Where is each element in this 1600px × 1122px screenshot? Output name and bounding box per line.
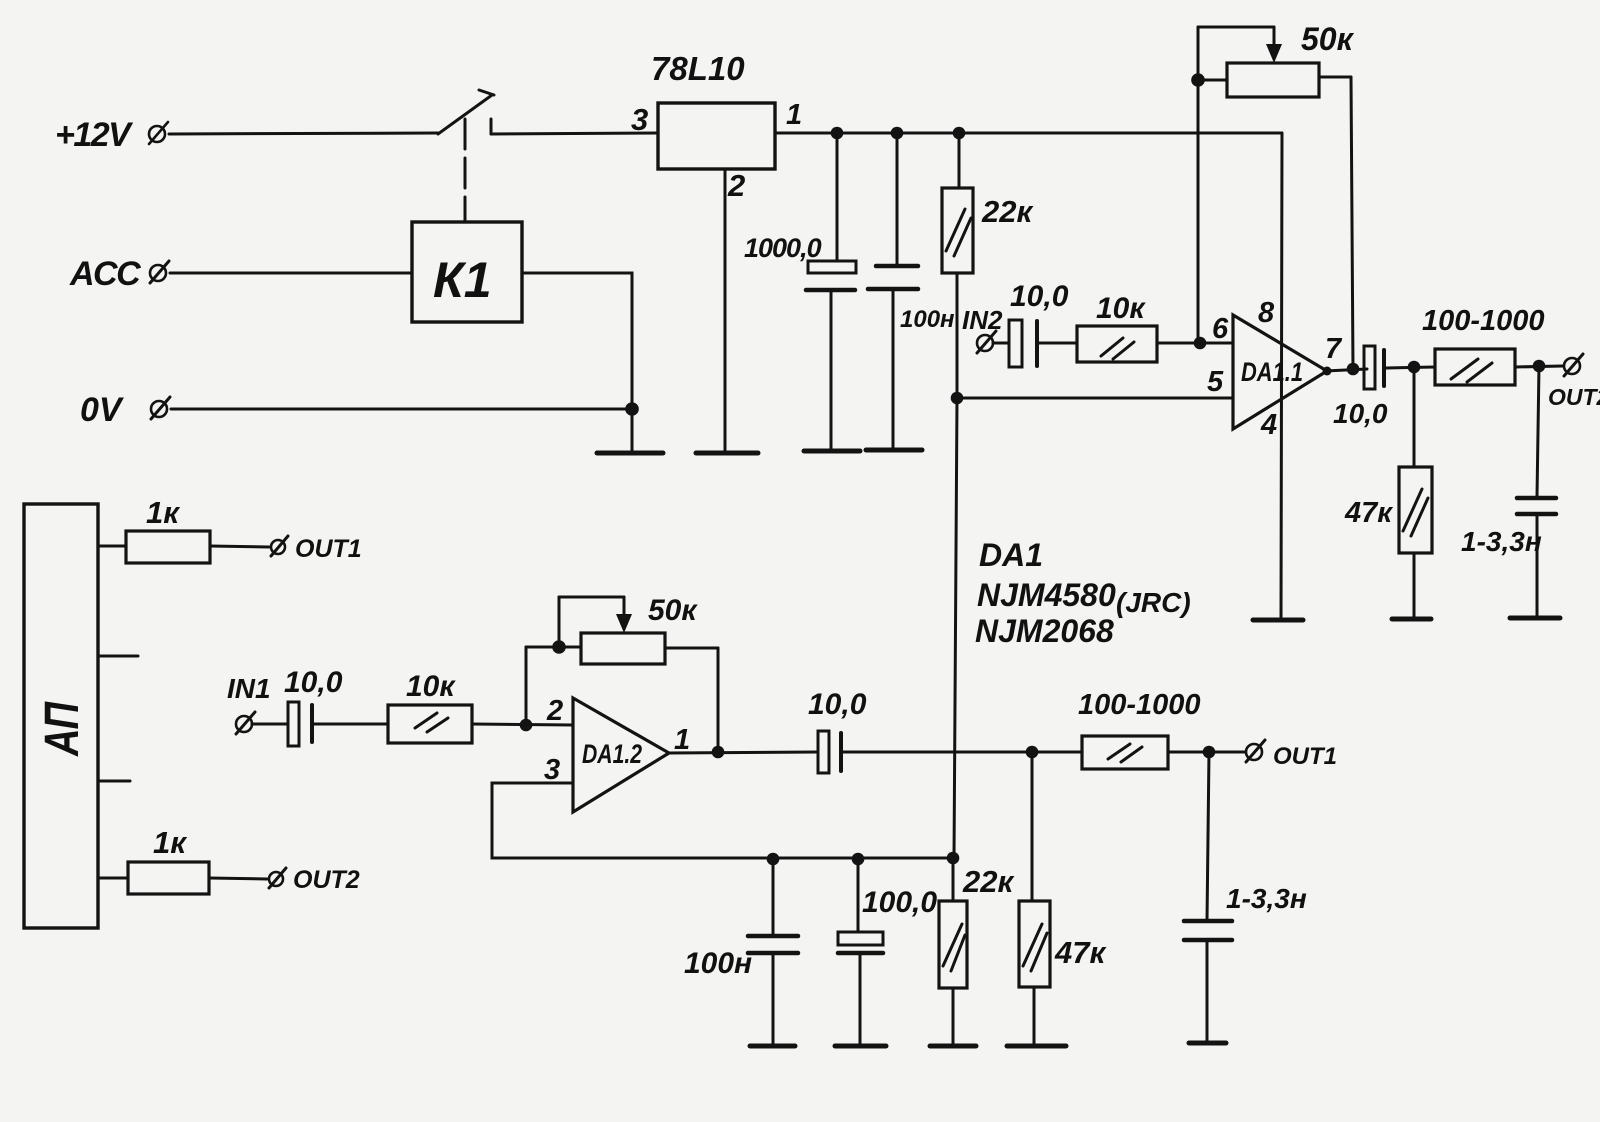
svg-text:NJM2068: NJM2068 — [975, 613, 1114, 649]
resistor R2 10k DA1.1 — [1077, 326, 1157, 362]
terminal ACC — [150, 261, 169, 283]
svg-text:78L10: 78L10 — [651, 50, 745, 87]
svg-text:OUT2: OUT2 — [293, 866, 360, 894]
svg-text:10,0: 10,0 — [1010, 280, 1069, 313]
node RP2 left — [552, 640, 566, 654]
terminal OUT2 A1 — [269, 868, 286, 888]
terminal OUT1 bottom — [1246, 740, 1265, 762]
node out1 filter — [1026, 746, 1039, 759]
svg-text:(JRC): (JRC) — [1116, 587, 1191, 618]
svg-text:10,0: 10,0 — [284, 666, 343, 699]
node out1 cap — [1203, 746, 1216, 759]
svg-text:10,0: 10,0 — [808, 688, 867, 721]
terminal IN2 — [977, 331, 996, 353]
ground R9 — [930, 1044, 976, 1049]
svg-text:IN2: IN2 — [962, 305, 1003, 335]
wire A1 to R5 — [98, 545, 126, 548]
ground C8 — [835, 1044, 886, 1049]
svg-text:10к: 10к — [1096, 292, 1146, 325]
svg-text:4: 4 — [1260, 409, 1277, 441]
regulator U1 78L10 — [658, 103, 775, 169]
wire switch to regulator pin 3 — [491, 133, 658, 134]
potentiometer RP1 50k top — [1198, 27, 1353, 369]
svg-text:ACC: ACC — [69, 255, 141, 293]
capacitor C8 100,0 bottom — [838, 859, 883, 1045]
resistor R5 1k top — [126, 531, 210, 563]
resistor R8 100-1000 bottom — [1082, 736, 1168, 769]
svg-text:OUT2: OUT2 — [1548, 384, 1600, 410]
node DA1.1 tip — [1323, 367, 1332, 376]
wire rail to pin8 of DA1.1 and down to ground — [1281, 133, 1282, 619]
node bias C7 — [767, 853, 780, 866]
svg-text:АП: АП — [36, 701, 89, 757]
terminal 0V — [151, 397, 170, 419]
svg-text:3: 3 — [631, 102, 648, 137]
wire regulator output rail — [775, 132, 1282, 135]
svg-text:OUT1: OUT1 — [295, 535, 362, 563]
svg-text:1-3,3н: 1-3,3н — [1461, 526, 1542, 557]
svg-text:50к: 50к — [1301, 21, 1355, 57]
svg-text:IN1: IN1 — [227, 673, 271, 704]
svg-text:6: 6 — [1212, 313, 1229, 345]
terminal OUT2 top — [1564, 354, 1583, 376]
capacitor C9 10,0 output DA1.2 — [818, 731, 1082, 773]
svg-text:К1: К1 — [433, 252, 492, 308]
ground C2 — [866, 448, 922, 453]
terminal +12V — [149, 122, 168, 144]
svg-text:3: 3 — [544, 754, 560, 786]
resistor R7 10k DA1.2 — [388, 705, 472, 743]
node 0V-K1 — [625, 402, 639, 416]
capacitor C10 1-3,3n bottom — [1184, 752, 1232, 1042]
wire regulator pin 2 to ground — [724, 169, 727, 452]
svg-text:2: 2 — [546, 695, 563, 727]
svg-text:1000,0: 1000,0 — [744, 233, 822, 263]
ground C5 — [1510, 616, 1560, 621]
node pin7 feedback — [1347, 363, 1360, 376]
wire R5 to OUT1 — [210, 546, 269, 547]
svg-text:100-1000: 100-1000 — [1078, 689, 1201, 721]
capacitor C7 100n bottom — [748, 859, 798, 1045]
block A1 АП — [24, 504, 98, 928]
resistor R4 47k top — [1399, 367, 1432, 618]
svg-text:1-3,3н: 1-3,3н — [1226, 883, 1307, 914]
wire R7 to pin 2 — [472, 724, 573, 725]
wire ACC to K1 — [170, 272, 412, 275]
terminal OUT1 A1 — [271, 536, 288, 556]
node M — [951, 392, 964, 405]
svg-text:50к: 50к — [648, 594, 698, 627]
stub A1 pin2 — [98, 655, 138, 658]
svg-text:NJM4580: NJM4580 — [977, 577, 1116, 613]
op-amp U2 DA1.1 — [1233, 315, 1327, 429]
svg-text:DA1.2: DA1.2 — [582, 739, 642, 769]
relay K1 — [412, 222, 522, 322]
ground R10 — [1007, 1044, 1066, 1049]
svg-text:1: 1 — [786, 99, 802, 131]
node out2 cap — [1533, 360, 1546, 373]
svg-text:OUT1: OUT1 — [1273, 743, 1337, 770]
resistor R10 47k bottom — [1019, 752, 1050, 1045]
dashed actuator line — [464, 119, 467, 222]
svg-text:47к: 47к — [1344, 497, 1393, 529]
node pot left — [1191, 73, 1205, 87]
capacitor C6 10,0 input DA1.2 — [252, 702, 388, 746]
wire node M to pin 5 — [957, 397, 1233, 400]
wire A1 to R6 — [98, 877, 128, 880]
svg-text:47к: 47к — [1054, 935, 1106, 970]
wire node to ground — [631, 409, 634, 452]
resistor R9 22k bottom — [939, 858, 967, 1045]
svg-text:0V: 0V — [80, 391, 125, 429]
wire pin3 bias — [492, 783, 953, 858]
wire pin1 out — [669, 752, 818, 753]
svg-text:10к: 10к — [406, 670, 456, 703]
wire R2 to pin 6 — [1157, 342, 1233, 345]
svg-text:+12V: +12V — [55, 116, 134, 154]
capacitor C5 1-3,3n top — [1517, 366, 1556, 617]
svg-text:7: 7 — [1325, 333, 1343, 365]
svg-text:100н: 100н — [684, 947, 752, 980]
svg-text:22к: 22к — [962, 864, 1014, 899]
node pin6 — [1194, 337, 1207, 350]
wire R6 to OUT2 — [209, 878, 267, 879]
ground DA1.1 pin4 — [1253, 618, 1303, 623]
wire R8 to OUT1 — [1168, 751, 1245, 754]
ground 0V — [597, 451, 663, 456]
svg-text:10,0: 10,0 — [1333, 398, 1388, 429]
stub A1 pin3 — [98, 780, 130, 783]
svg-text:100н: 100н — [900, 306, 955, 333]
ground regulator — [696, 451, 758, 456]
node pin2 — [520, 719, 533, 732]
wire K1 to 0V node — [522, 273, 632, 409]
switch S1 — [438, 90, 494, 134]
resistor R1 22k top — [942, 133, 973, 273]
resistor R6 1k bottom — [128, 862, 209, 894]
wire +12V to switch — [169, 133, 438, 134]
node rail-C1 — [831, 127, 844, 140]
resistor R3 100-1000 top — [1435, 349, 1515, 385]
wire 0V — [171, 408, 632, 411]
ground R4 — [1392, 617, 1431, 622]
svg-text:100-1000: 100-1000 — [1422, 305, 1545, 337]
svg-text:1к: 1к — [146, 495, 180, 530]
svg-text:8: 8 — [1258, 297, 1275, 329]
wire node M down to bottom network — [954, 398, 957, 858]
svg-text:DA1.1: DA1.1 — [1241, 357, 1303, 387]
node bias 22k — [947, 852, 960, 865]
ground C1 — [804, 449, 860, 454]
svg-text:1к: 1к — [153, 825, 187, 860]
node bias C8 — [852, 853, 865, 866]
wire R1 to node M — [956, 273, 959, 398]
op-amp U3 DA1.2 — [573, 698, 669, 812]
capacitor C1 1000,0 — [806, 133, 856, 449]
potentiometer RP2 50k bottom — [526, 597, 718, 752]
svg-text:100,0: 100,0 — [862, 886, 937, 919]
svg-text:22к: 22к — [981, 194, 1033, 229]
wire R3 to OUT2 — [1515, 366, 1563, 367]
capacitor C2 100n — [868, 133, 918, 449]
terminal IN1 — [236, 712, 255, 734]
wire pin7 to C4 — [1325, 369, 1367, 371]
svg-text:DA1: DA1 — [979, 537, 1043, 573]
svg-text:5: 5 — [1207, 366, 1224, 398]
capacitor C4 10,0 output DA1.1 — [1364, 346, 1435, 389]
node rail-C2 — [891, 127, 904, 140]
node out2 filter — [1408, 361, 1421, 374]
svg-text:2: 2 — [727, 168, 745, 203]
ground C7 — [750, 1044, 795, 1049]
node rail-R22k — [953, 127, 966, 140]
ground C10 — [1189, 1041, 1226, 1046]
node pin1 feedback — [712, 746, 725, 759]
capacitor C3 10,0 input DA1.1 — [993, 320, 1077, 367]
svg-text:1: 1 — [674, 724, 690, 756]
